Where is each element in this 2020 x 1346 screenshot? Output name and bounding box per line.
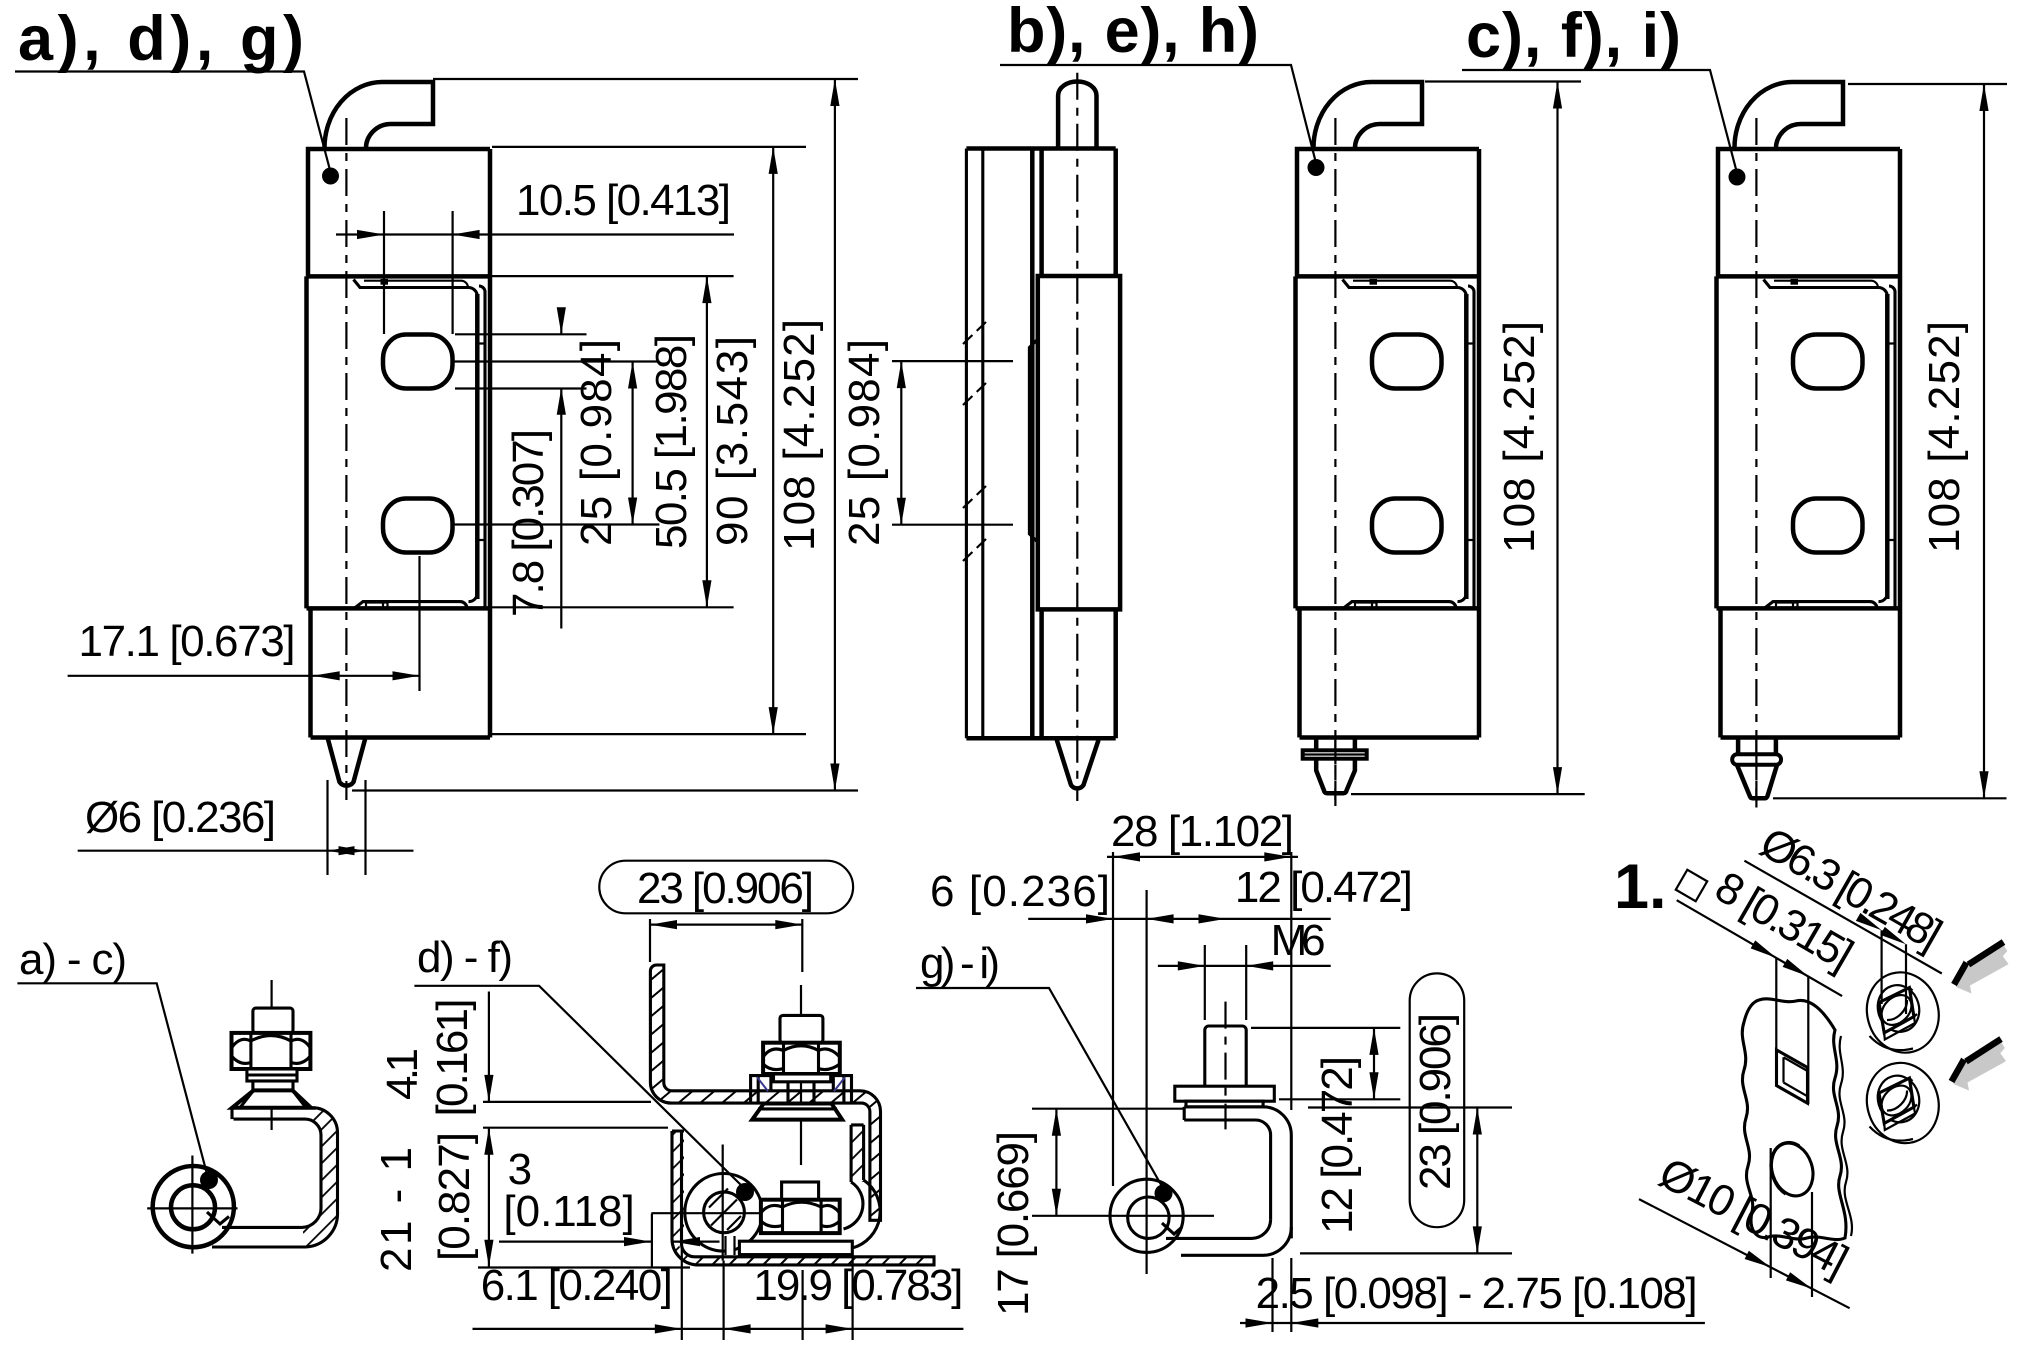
ext leaf bottom — [492, 606, 734, 608]
svg-text:4.1: 4.1 — [378, 1048, 427, 1100]
dim dia6 — [328, 780, 366, 875]
GROUP 1. mounting — [1614, 818, 2009, 1308]
dim 25 — [631, 362, 633, 525]
dim 108 D — [1848, 83, 2007, 85]
GROUP a) - c) bottom left — [17, 935, 337, 1254]
curl crosshair — [651, 1145, 791, 1261]
top block columns — [1042, 149, 1116, 277]
svg-text:b), e), h): b), e), h) — [1007, 0, 1259, 66]
dim 23 below balloon — [650, 919, 802, 972]
svg-text:50.5 [1.988]: 50.5 [1.988] — [647, 334, 696, 549]
bolt centerline — [271, 980, 273, 1130]
VIEW D c),f),i) hinge — [1717, 82, 1901, 800]
leaf boss bump — [1029, 339, 1037, 542]
door plate — [966, 149, 982, 739]
svg-text:a) - c): a) - c) — [19, 935, 127, 984]
dims left: 4.1 and 21-1 — [483, 1102, 668, 1128]
svg-text:7.8 [0.307]: 7.8 [0.307] — [504, 429, 553, 617]
ext slot1 top / bottom — [455, 333, 587, 335]
upper sq head — [780, 1015, 823, 1042]
bottom dims 6.1 / 19.9 — [682, 1246, 853, 1340]
profile top plate — [1184, 1107, 1291, 1239]
svg-text:2.5 [0.098] - 2.75 [0.108]: 2.5 [0.098] - 2.75 [0.108] — [1256, 1269, 1698, 1318]
clamp plate upper — [751, 1076, 852, 1104]
panel thickness line right — [1839, 1036, 1852, 1236]
slit — [207, 1212, 229, 1224]
pin section hatch in curl — [709, 1189, 741, 1231]
lower leg hatch — [700, 1257, 934, 1265]
dim dia6.3 diagonal — [1744, 861, 1941, 974]
profile: top plate — [232, 1108, 338, 1247]
svg-text:[0.118]: [0.118] — [503, 1187, 634, 1236]
shank through plate — [788, 1082, 814, 1104]
stud — [1205, 1026, 1246, 1086]
df angle stub + bottom leg — [672, 1234, 934, 1265]
VIEW A a),d),g) — [307, 82, 491, 800]
svg-text:21 - 1: 21 - 1 — [372, 1147, 421, 1272]
bottom plate faces — [212, 1227, 306, 1247]
washer under flange — [1186, 1101, 1263, 1107]
frame front face — [1030, 149, 1035, 739]
svg-text:12 [0.472]: 12 [0.472] — [1235, 863, 1413, 912]
flare below plate — [752, 1104, 842, 1120]
svg-text:108 [4.252]: 108 [4.252] — [1495, 321, 1544, 553]
upper hex nut — [763, 1043, 840, 1074]
hex nut — [232, 1033, 311, 1069]
dim 17 — [1032, 1109, 1214, 1216]
curl inner — [1128, 1197, 1169, 1238]
svg-text:d) - f): d) - f) — [417, 933, 513, 982]
svg-text:a), d), g): a), d), g) — [18, 4, 304, 74]
sheet2 bottom bend — [844, 1180, 881, 1248]
leader dot gi — [1155, 1184, 1173, 1202]
hatch fill right leg region — [302, 1108, 338, 1247]
dim 25 ext lines — [892, 361, 1013, 525]
svg-text:[0.827]: [0.827] — [430, 1132, 479, 1261]
dim 17.1 — [418, 556, 420, 691]
VIEW C c-view hinge — [1296, 82, 1480, 800]
ext slot1 center — [454, 360, 659, 362]
dim 108 C — [1425, 80, 1581, 82]
ext line hook top — [433, 78, 858, 80]
svg-text:c), f), i): c), f), i) — [1466, 1, 1681, 71]
sheet2 leg hatch — [851, 1125, 864, 1182]
VIEW A DIMENSIONS — [68, 79, 858, 875]
balloon 23 vertical — [1410, 973, 1465, 1227]
leader dot df — [736, 1183, 754, 1201]
svg-text:12 [0.472]: 12 [0.472] — [1313, 1056, 1362, 1234]
break tick marks on plate — [963, 322, 986, 561]
stud centerline — [1224, 1002, 1226, 1130]
GROUP d) - f) — [372, 861, 963, 1340]
curl inner — [171, 1185, 215, 1229]
svg-text:108 [4.252]: 108 [4.252] — [775, 319, 824, 551]
centerline — [1076, 73, 1078, 801]
GROUP g) - i) — [916, 807, 1705, 1332]
dim 25 line — [900, 361, 902, 525]
bottom bend — [1166, 1220, 1291, 1256]
flange washer — [1303, 750, 1367, 758]
df angle stub hatch — [672, 1131, 684, 1234]
svg-text:28 [1.102]: 28 [1.102] — [1111, 807, 1294, 856]
VIEW B side view b),e),h) — [840, 73, 1120, 801]
svg-text:M6: M6 — [1271, 916, 1326, 965]
dim 50.5 — [706, 276, 708, 607]
svg-text:25 [0.984]: 25 [0.984] — [840, 339, 889, 546]
tip — [1316, 759, 1355, 794]
sheet1 hatch fill — [650, 965, 880, 1220]
collar — [253, 1081, 293, 1090]
svg-text:g) - i): g) - i) — [920, 939, 1000, 988]
svg-text:19.9 [0.783]: 19.9 [0.783] — [753, 1261, 963, 1310]
dim 7.8 vertical line — [560, 310, 562, 629]
ext leaf top — [492, 275, 734, 277]
top edge — [966, 146, 1115, 151]
ext slot2 center — [454, 523, 659, 525]
curl slit — [1162, 1223, 1182, 1234]
ext pin tip — [352, 789, 858, 791]
top pin with dome — [1058, 81, 1096, 148]
curl inner — [704, 1192, 745, 1233]
crosshair — [147, 1156, 237, 1254]
curl outer — [685, 1174, 763, 1252]
centerline extension — [1334, 738, 1336, 807]
gray arrows — [1954, 942, 2009, 994]
view A cone pin — [328, 738, 366, 786]
svg-text:10.5 [0.413]: 10.5 [0.413] — [516, 176, 731, 225]
square head — [253, 1008, 293, 1033]
ring bulge — [1732, 754, 1781, 765]
svg-text:[0.161]: [0.161] — [428, 999, 477, 1117]
lower hex nut — [761, 1200, 840, 1233]
stud flange — [1175, 1086, 1275, 1101]
sheet2 leg outline — [851, 1125, 864, 1182]
balloon 23 — [599, 861, 853, 914]
bottom cone pin — [1057, 740, 1099, 788]
svg-text:25 [0.984]: 25 [0.984] — [572, 339, 621, 546]
countersunk flare — [232, 1090, 311, 1107]
svg-text:1.: 1. — [1614, 852, 1667, 922]
square cutout — [1777, 1050, 1808, 1103]
washer rings — [247, 1069, 297, 1081]
dim 108 — [834, 79, 836, 791]
lower sq boss — [782, 1182, 819, 1203]
leader dot — [200, 1171, 218, 1189]
lower washer bar — [739, 1241, 852, 1254]
middle block — [1038, 276, 1120, 609]
dim 12 right — [1251, 1028, 1400, 1099]
centerline extension — [1755, 738, 1757, 808]
svg-text:Ø6 [0.236]: Ø6 [0.236] — [85, 793, 276, 842]
panel wavy — [1742, 999, 1846, 1240]
dim square8 diagonal — [1677, 900, 1842, 996]
upper washer — [774, 1074, 831, 1082]
upper bolt centerline — [800, 985, 802, 1165]
svg-text:17.1 [0.673]: 17.1 [0.673] — [79, 617, 296, 666]
TOP VIEW LABELS — [15, 0, 1746, 186]
sheet1 outline — [650, 965, 880, 1220]
dim dia10 diagonal — [1639, 1199, 1850, 1308]
ext lines slot edges vertical (10.5) — [384, 211, 453, 334]
dim line 10.5 — [336, 233, 734, 235]
svg-text:17 [0.669]: 17 [0.669] — [989, 1131, 1038, 1316]
frustum tip — [1737, 765, 1777, 798]
svg-text:6.1 [0.240]: 6.1 [0.240] — [481, 1261, 673, 1310]
pin shaft — [1316, 738, 1355, 752]
curl outer — [1110, 1179, 1183, 1252]
dim 90 — [772, 147, 774, 734]
upper nut+washer — [1858, 964, 1949, 1061]
ext body bottom — [492, 733, 806, 735]
dim 23 right — [1300, 1108, 1512, 1254]
round hole — [1765, 1138, 1820, 1202]
svg-text:90 [3.543]: 90 [3.543] — [708, 336, 757, 546]
curl outer — [153, 1166, 234, 1247]
bottom block columns — [1042, 609, 1116, 738]
bottom edge — [966, 736, 1115, 741]
svg-text:108 [4.252]: 108 [4.252] — [1920, 321, 1969, 553]
pin shaft — [1738, 738, 1776, 756]
ext line body top — [492, 146, 806, 148]
svg-text:23 [0.906]: 23 [0.906] — [637, 864, 814, 913]
curl slit — [726, 1235, 735, 1255]
svg-text:23 [0.906]: 23 [0.906] — [1411, 1013, 1460, 1190]
